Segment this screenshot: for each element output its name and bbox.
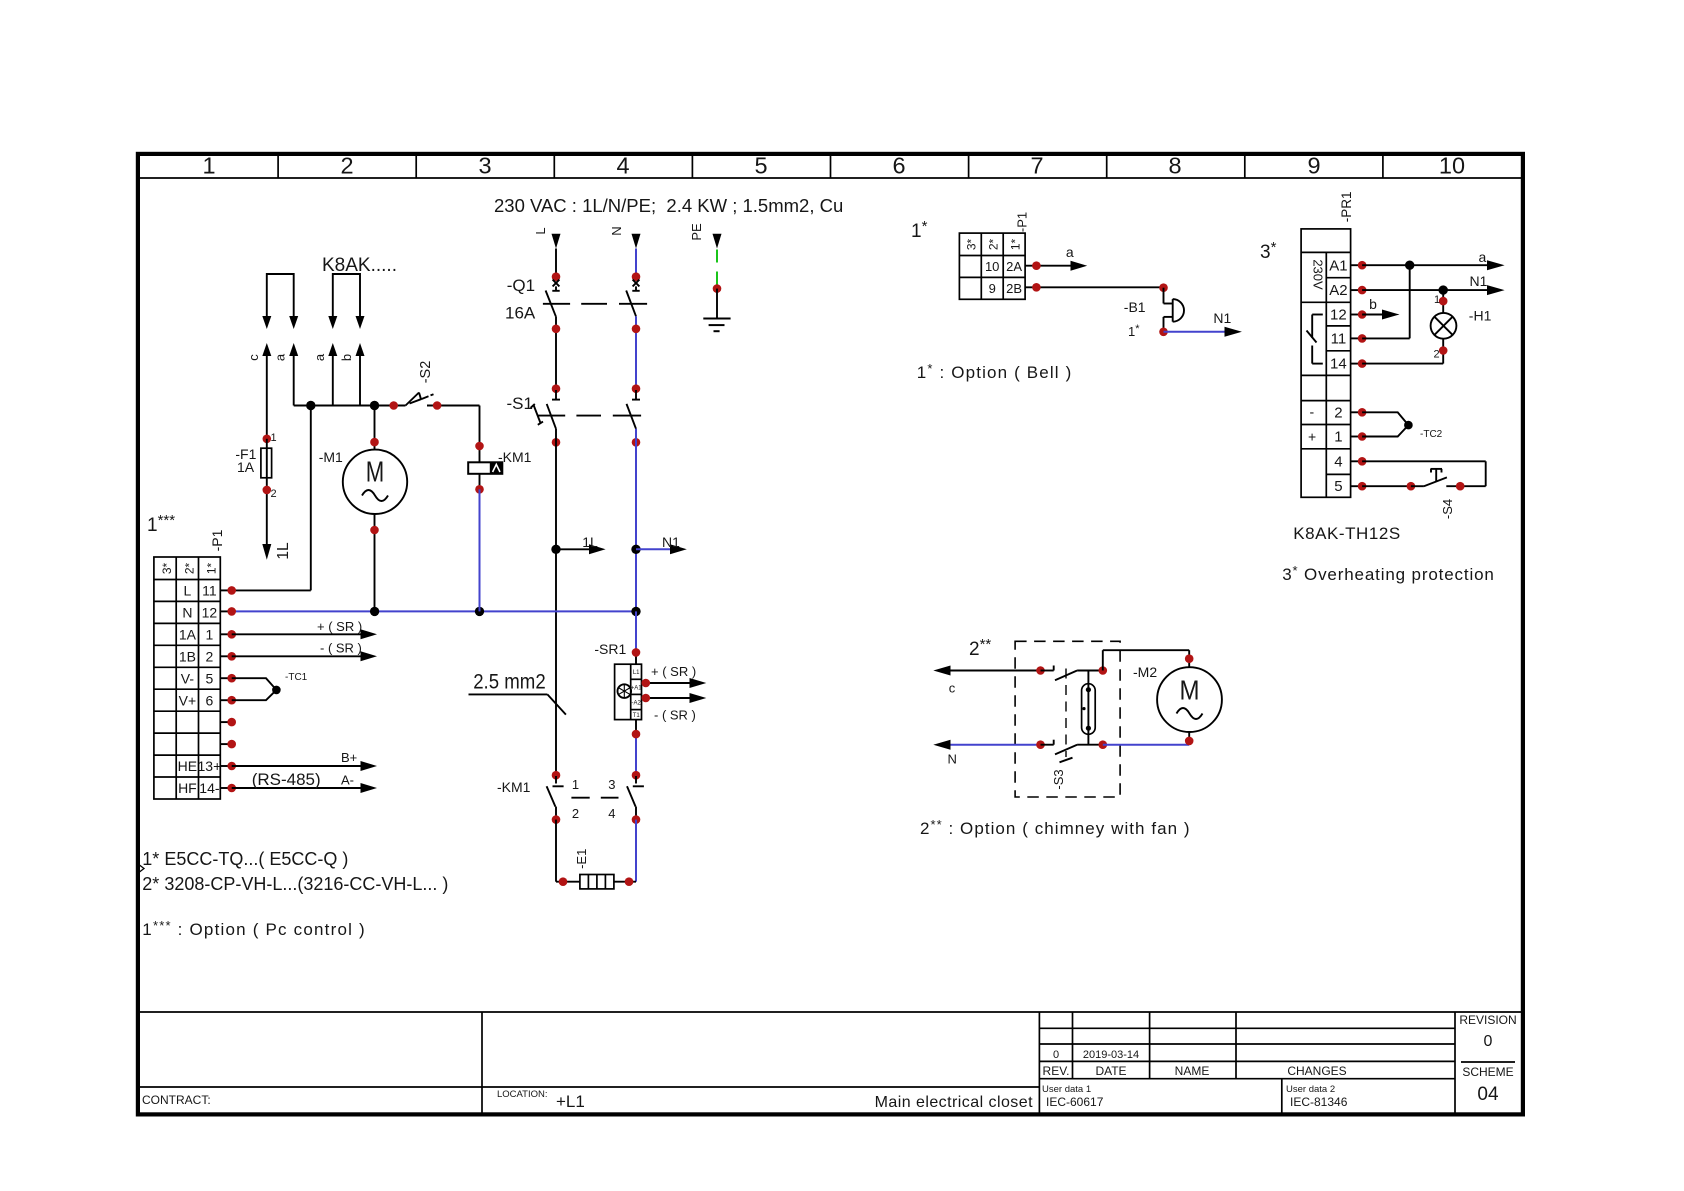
wire A2 N1 arrow [1362, 273, 1505, 295]
svg-text:-TC2: -TC2 [1420, 429, 1443, 440]
svg-text:REVISION: REVISION [1459, 1013, 1516, 1027]
svg-text:3: 3 [478, 153, 491, 179]
wire top bus [294, 401, 406, 410]
node 1L arrow [551, 534, 605, 554]
thermocouple TC1 [232, 672, 308, 700]
svg-text:12: 12 [1330, 307, 1347, 324]
svg-text:1B: 1B [179, 648, 196, 664]
starter capsule [1082, 671, 1096, 745]
svg-text:IEC-60617: IEC-60617 [1046, 1095, 1104, 1109]
svg-text:6: 6 [206, 692, 214, 708]
svg-text:N1: N1 [662, 534, 680, 550]
svg-text:L: L [184, 583, 192, 599]
svg-text:A1: A1 [1329, 258, 1347, 275]
wire bell a arrow [1025, 244, 1087, 271]
thermocouple TC2 [1362, 412, 1443, 440]
svg-text:1* : Option ( Bell ): 1* : Option ( Bell ) [917, 361, 1073, 382]
contactor KM1 contact pole 1-2 [547, 776, 644, 820]
svg-text:-E1: -E1 [574, 849, 589, 869]
svg-text:2: 2 [206, 648, 214, 664]
svg-text:+L1: +L1 [556, 1092, 585, 1111]
svg-text:a: a [1066, 244, 1074, 260]
svg-text:-A2: -A2 [632, 701, 642, 707]
svg-text:0: 0 [1053, 1049, 1059, 1061]
svg-text:3*: 3* [965, 238, 979, 250]
contactor KM1 main contacts [497, 771, 644, 824]
svg-text:11: 11 [1331, 331, 1347, 348]
svg-text:2: 2 [1334, 405, 1342, 422]
motor M2 [1133, 664, 1222, 732]
wire S1 to bus (N) [635, 429, 637, 612]
wire Q1 to S1 (L) [555, 316, 557, 388]
svg-text:-P1: -P1 [209, 529, 225, 551]
svg-text:T1: T1 [633, 713, 641, 719]
svg-text:5: 5 [754, 153, 767, 179]
bell B1 [1124, 288, 1242, 339]
svg-text:N: N [609, 226, 624, 235]
wire S3 to M2 top [1103, 650, 1189, 670]
wire 14 to lamp [1362, 363, 1443, 365]
svg-text:1A: 1A [237, 459, 255, 475]
svg-text:1*: 1* [204, 562, 218, 574]
svg-text:a: a [273, 353, 288, 361]
svg-text:3* Overheating protection: 3* Overheating protection [1282, 563, 1495, 584]
svg-text:1: 1 [572, 777, 579, 792]
svg-text:-B1: -B1 [1124, 299, 1146, 315]
switch S1 pole L [531, 390, 642, 429]
heater E1 [556, 820, 636, 889]
svg-text:11: 11 [202, 583, 217, 599]
svg-text:9: 9 [1307, 153, 1320, 179]
svg-text:1: 1 [271, 432, 277, 444]
svg-text:b: b [1369, 296, 1377, 312]
svg-text:SCHEME: SCHEME [1462, 1065, 1513, 1079]
svg-text:N1: N1 [1213, 310, 1231, 326]
svg-text:-H1: -H1 [1469, 308, 1492, 324]
svg-text:10: 10 [1439, 153, 1465, 179]
svg-text:0: 0 [1484, 1033, 1493, 1050]
svg-text:Main electrical closet: Main electrical closet [875, 1094, 1034, 1111]
svg-text:L1: L1 [633, 670, 640, 676]
breaker Q1 pole L top terminal [552, 272, 561, 281]
node PE feeder arrow [689, 223, 722, 293]
svg-text:- ( SR ): - ( SR ) [654, 708, 696, 723]
svg-text:9: 9 [989, 281, 996, 296]
wire S1 to KM1 (L) [555, 429, 557, 775]
svg-text:2*: 2* [986, 238, 1000, 250]
svg-text:-M2: -M2 [1133, 664, 1157, 680]
svg-text:-S3: -S3 [1051, 769, 1066, 789]
svg-text:5: 5 [206, 670, 214, 686]
svg-text:6: 6 [892, 153, 905, 179]
pin labels 1 2 3 4 [572, 777, 616, 821]
wire 12 b arrow [1362, 296, 1399, 320]
svg-text:1: 1 [1434, 294, 1440, 306]
relay SR1 [594, 611, 706, 775]
terminal stubs P1 [220, 586, 236, 792]
svg-text:-KM1: -KM1 [497, 779, 531, 795]
wire A1 to 11 [1362, 265, 1410, 338]
svg-text:IEC-81346: IEC-81346 [1290, 1095, 1348, 1109]
svg-text:1A: 1A [179, 627, 197, 643]
fold mark [138, 864, 145, 874]
svg-text:V+: V+ [179, 692, 197, 708]
svg-text:+: + [1308, 429, 1316, 445]
svg-text:a: a [1479, 249, 1487, 265]
svg-text:3: 3 [608, 777, 615, 792]
svg-text:7: 7 [1030, 153, 1043, 179]
svg-text:HF: HF [178, 780, 197, 796]
wire SR1 +A1 output [642, 682, 690, 684]
node c arrow (left) [933, 666, 1040, 696]
svg-text:N1: N1 [1470, 273, 1488, 289]
node N1 arrow [631, 534, 687, 554]
svg-text:-Q1: -Q1 [507, 276, 535, 295]
svg-text:+ ( SR ): + ( SR ) [317, 619, 362, 634]
node N arrow (left) [933, 740, 1040, 767]
svg-text:-S2: -S2 [418, 361, 434, 384]
svg-text:-M1: -M1 [319, 449, 343, 465]
relay PR1 internal changeover contact [1307, 315, 1323, 364]
svg-text:NAME: NAME [1175, 1064, 1210, 1078]
switch S2 [389, 361, 479, 410]
svg-text:-: - [1310, 404, 1315, 420]
svg-text:K8AK-TH12S: K8AK-TH12S [1293, 524, 1401, 543]
contactor KM1 contact pole 3-4 [635, 776, 637, 784]
svg-text:2: 2 [1434, 349, 1440, 361]
svg-text:4: 4 [608, 806, 615, 821]
motor M1 [319, 406, 407, 612]
breaker Q1 blades and coupling [543, 291, 647, 317]
node L feeder arrow [533, 227, 561, 276]
svg-text:LOCATION:: LOCATION: [497, 1089, 548, 1100]
terminal block P1 [154, 529, 225, 799]
relay PR1 terminal table [1301, 191, 1354, 497]
svg-text:-P1: -P1 [1015, 212, 1030, 232]
svg-text:HE: HE [178, 758, 197, 774]
wire SR1 -A2 output [642, 697, 690, 699]
svg-text:1: 1 [206, 627, 214, 643]
wire Q1 to S1 (N) [635, 316, 637, 388]
svg-text:1: 1 [1334, 429, 1342, 446]
svg-text:CHANGES: CHANGES [1287, 1064, 1346, 1078]
wire 1A +SR arrow [232, 619, 377, 639]
svg-text:+ ( SR ): + ( SR ) [651, 664, 696, 679]
wire to terminal L [232, 406, 311, 591]
svg-text:2: 2 [572, 806, 579, 821]
terminal block P1 (bell) [959, 212, 1029, 299]
switch S1 pole N [635, 390, 637, 400]
svg-text:230V: 230V [1311, 259, 1326, 290]
svg-text:10: 10 [985, 259, 999, 274]
wire bell 2B to B1 [1025, 283, 1168, 292]
svg-text:1: 1 [202, 153, 215, 179]
dashed enclosure S3 [1015, 641, 1120, 797]
svg-text:1L: 1L [275, 542, 292, 560]
wire 1B -SR arrow [232, 641, 377, 662]
wire HE B+ arrow [232, 750, 377, 771]
svg-text:+A1: +A1 [631, 686, 643, 692]
wire A1 a arrow [1362, 249, 1505, 270]
terminal stubs PR1 [1351, 261, 1367, 491]
svg-text:b: b [339, 354, 354, 361]
svg-text:c: c [246, 354, 261, 361]
svg-text:PE: PE [689, 223, 704, 241]
svg-text:1* E5CC-TQ...( E5CC-Q ): 1* E5CC-TQ...( E5CC-Q ) [142, 849, 348, 869]
svg-text:CONTRACT:: CONTRACT: [142, 1093, 211, 1107]
thermal switch S4 [1362, 461, 1486, 519]
node N feeder arrow [609, 226, 641, 276]
svg-text:2: 2 [271, 488, 277, 500]
node c/a arrows pair 1 [246, 274, 298, 439]
svg-text:2.5 mm2: 2.5 mm2 [473, 671, 546, 694]
svg-text:A2: A2 [1329, 282, 1347, 299]
svg-text:2B: 2B [1006, 281, 1022, 296]
svg-text:2019-03-14: 2019-03-14 [1083, 1049, 1139, 1061]
svg-text:- ( SR ): - ( SR ) [320, 641, 362, 656]
svg-text:230 VAC : 1L/N/PE; 2.4 KW ; 1: 230 VAC : 1L/N/PE; 2.4 KW ; 1.5mm2, Cu [494, 195, 843, 216]
svg-text:A-: A- [341, 773, 354, 788]
switch S3 [1036, 666, 1107, 790]
svg-text:4: 4 [616, 153, 629, 179]
svg-text:14-: 14- [199, 780, 220, 796]
TITLE BLOCK [137, 1012, 1521, 1113]
svg-text:2*: 2* [182, 562, 196, 574]
svg-text:B+: B+ [341, 750, 357, 765]
breaker Q1 [505, 272, 647, 388]
svg-text:2* 3208-CP-VH-L...(3216-CC-VH-: 2* 3208-CP-VH-L...(3216-CC-VH-L... ) [142, 874, 448, 894]
svg-text:4: 4 [1334, 454, 1342, 471]
wire N bus [232, 607, 641, 616]
svg-text:8: 8 [1168, 153, 1181, 179]
svg-text:M: M [366, 457, 385, 489]
wire S3 to M2 bottom [1103, 744, 1189, 746]
svg-text:04: 04 [1477, 1084, 1499, 1105]
svg-text:L: L [533, 227, 548, 234]
svg-text:DATE: DATE [1095, 1064, 1126, 1078]
svg-text:5: 5 [1334, 478, 1342, 495]
svg-text:-S4: -S4 [1440, 499, 1455, 519]
svg-text:1*** : Option ( Pc control ): 1*** : Option ( Pc control ) [142, 918, 366, 939]
svg-text:N: N [948, 752, 957, 767]
svg-text:User data 2: User data 2 [1286, 1084, 1335, 1095]
lamp H1 [1431, 290, 1492, 364]
svg-text:User data 1: User data 1 [1042, 1084, 1091, 1095]
svg-text:c: c [949, 681, 956, 696]
node 1L down arrow [262, 542, 292, 560]
switch S1 [507, 384, 642, 446]
svg-text:(RS-485): (RS-485) [252, 770, 321, 789]
svg-text:K8AK.....: K8AK..... [322, 255, 397, 276]
svg-text:2** : Option ( chimney with fa: 2** : Option ( chimney with fan ) [920, 817, 1191, 838]
notes bottom left [142, 849, 448, 939]
wire SR1 to KM1 contact [635, 720, 637, 735]
svg-text:M: M [1180, 674, 1200, 705]
svg-text:14: 14 [1330, 356, 1347, 373]
note 2.5mm2 [469, 671, 566, 715]
ground [703, 289, 730, 332]
contactor KM1 coil [468, 406, 531, 612]
svg-text:V-: V- [181, 670, 195, 686]
wire HF A- arrow [232, 770, 377, 793]
svg-text:-TC1: -TC1 [285, 672, 308, 683]
svg-text:-SR1: -SR1 [594, 641, 626, 657]
svg-text:16A: 16A [505, 304, 536, 323]
svg-text:13+: 13+ [198, 758, 222, 774]
svg-text:2: 2 [340, 153, 353, 179]
svg-text:-S1: -S1 [507, 394, 533, 413]
breaker Q1 pole N top terminal [632, 272, 641, 281]
svg-text:1*: 1* [1008, 238, 1022, 250]
node a/b arrows pair 2 [312, 274, 365, 406]
svg-text:3*: 3* [160, 562, 174, 574]
svg-text:-PR1: -PR1 [1339, 191, 1354, 222]
switch S1 manual actuator [534, 406, 541, 423]
svg-text:1L: 1L [582, 534, 598, 550]
svg-text:12: 12 [202, 605, 218, 621]
svg-text:REV.: REV. [1043, 1064, 1070, 1078]
svg-text:2A: 2A [1006, 259, 1022, 274]
breaker Q1 fixed contact marks [552, 280, 639, 291]
svg-text:a: a [312, 353, 327, 361]
fuse F1 [235, 432, 276, 544]
svg-text:N: N [182, 605, 192, 621]
